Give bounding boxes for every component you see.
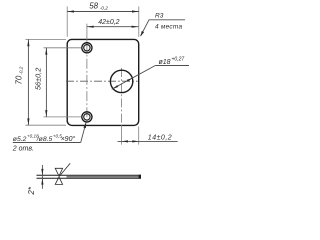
extension line for 42 dim (above plate, from hole centerline) bbox=[86, 24, 88, 43]
dimension 56±0.2 : dimension line with arrows bbox=[45, 48, 47, 117]
svg-text:+0,27: +0,27 bbox=[172, 57, 185, 63]
svg-text:42±0,2: 42±0,2 bbox=[98, 19, 119, 26]
svg-text:ø5.2: ø5.2 bbox=[13, 136, 27, 143]
svg-text:4 места: 4 места bbox=[155, 23, 183, 30]
svg-text:/ø8.5: /ø8.5 bbox=[36, 136, 53, 143]
extension line for 14 dim (below plate, from hole center) bbox=[121, 126, 123, 145]
dimension 70-0.2 : extension lines bbox=[25, 38, 66, 40]
dimension 14±0.2 : extension line from right edge bbox=[138, 126, 140, 144]
R3 note : text R3 / 4 места bbox=[155, 13, 183, 31]
counterbored hole bottom (ø5.2/ø8.5) bbox=[82, 112, 92, 122]
marking symbol (bowtie) on section with leader bbox=[55, 163, 70, 184]
svg-text:56±0,2: 56±0,2 bbox=[34, 68, 43, 90]
dimension 70-0.2 : dimension line with arrows bbox=[27, 39, 29, 125]
dimension 58-0.2 : label bbox=[89, 1, 108, 11]
horizontal centerline through big hole bbox=[66, 80, 138, 82]
dimension 2 : rotated label 2* bbox=[27, 186, 36, 195]
dimension 56±0.2 : rotated label bbox=[34, 68, 43, 90]
countersink note : text line 1 bbox=[13, 133, 76, 143]
svg-text:×90°: ×90° bbox=[61, 135, 76, 143]
dimension 56±0.2 : extension lines bbox=[44, 47, 82, 49]
svg-text:14±0,2: 14±0,2 bbox=[148, 134, 172, 141]
svg-text:-0,2: -0,2 bbox=[18, 66, 24, 75]
dimension 58-0.2 : dimension line with arrows bbox=[67, 10, 139, 12]
countersink note ø5.2/ø8.5×90° : shelf and leader to bottom hole bbox=[13, 122, 86, 142]
svg-text:R3: R3 bbox=[155, 13, 164, 20]
ø18+0.27 note : leader/diameter line with arrows bbox=[112, 66, 189, 90]
side view : thin section bar outline bbox=[37, 175, 142, 178]
plate outline (front view) bbox=[67, 39, 139, 125]
svg-text:-0,2: -0,2 bbox=[100, 6, 109, 12]
dimension 2 (thickness) : dimension line with outside arrows bbox=[41, 165, 43, 189]
svg-text:2*: 2* bbox=[27, 186, 36, 195]
svg-text:2 отв.: 2 отв. bbox=[12, 145, 34, 152]
dimension 58-0.2 : extension lines bbox=[66, 7, 68, 37]
dimension 70-0.2 : rotated label bbox=[15, 66, 25, 84]
counterbored hole top (ø5.2/ø8.5) bbox=[82, 43, 92, 53]
svg-text:70: 70 bbox=[15, 75, 24, 84]
dimension 42±0.2 : dimension line with arrows bbox=[87, 26, 138, 28]
vertical centerline through big hole bbox=[121, 68, 123, 126]
side view : blackened section fill bbox=[67, 176, 140, 178]
ø18+0.27 note : label bbox=[159, 57, 185, 67]
dimension 14±0.2 : dimension line with arrows bbox=[118, 140, 178, 142]
big hole ø18 bbox=[110, 70, 132, 92]
R3 note : leader with arrow to corner bbox=[140, 20, 185, 37]
vertical centerline through small holes bbox=[86, 43, 88, 124]
svg-text:58: 58 bbox=[89, 1, 98, 10]
svg-text:ø18: ø18 bbox=[159, 59, 171, 66]
